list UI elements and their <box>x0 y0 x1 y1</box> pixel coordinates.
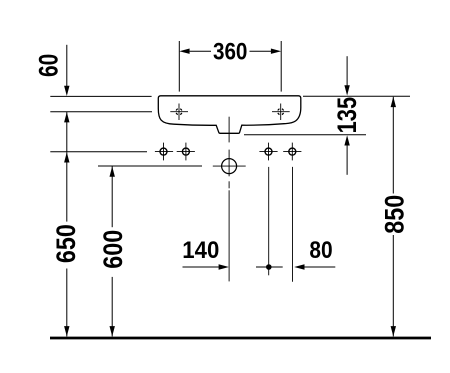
wire rim reference line right <box>303 95 410 97</box>
dimension 850 line <box>392 97 394 194</box>
svg-text:600: 600 <box>98 230 128 269</box>
dimension 360 extension right <box>280 41 282 92</box>
fixing hole C3 <box>259 143 277 161</box>
basin outline <box>158 96 300 134</box>
dimension 80 line <box>304 266 335 268</box>
fixing hole C4 <box>283 143 301 161</box>
fixing hole C1 <box>155 143 173 161</box>
floor line <box>50 337 431 340</box>
arrowhead 600 down <box>110 326 115 336</box>
dimension 650 line <box>66 152 68 221</box>
svg-text:850: 850 <box>379 195 409 234</box>
wire through dot <box>256 266 283 268</box>
arrowhead 60 down <box>64 86 69 96</box>
wire 60 level line left <box>50 111 152 113</box>
dimension 140 line <box>183 266 219 268</box>
fixing hole C2 <box>177 143 195 161</box>
wire 135 level line <box>244 134 366 136</box>
extension below fixing hole C3 <box>268 167 270 275</box>
wire 600 level line <box>98 165 202 167</box>
svg-text:80: 80 <box>309 237 332 264</box>
water supply circle <box>222 159 237 174</box>
arrowhead 140 right <box>219 264 229 269</box>
mounting crosshair right <box>272 104 290 121</box>
dimension 360 line <box>190 50 211 52</box>
arrowhead 360 left <box>179 49 189 54</box>
centerline of drain <box>228 117 230 143</box>
arrowhead 135 up <box>344 135 349 145</box>
dimension 360 extension left <box>178 41 180 92</box>
dimension 135 line <box>346 56 348 86</box>
svg-text:60: 60 <box>33 54 63 77</box>
arrowhead 60 up <box>64 112 69 122</box>
arrowhead 850 down <box>391 326 396 336</box>
svg-text:650: 650 <box>51 224 81 263</box>
wire 650 level line <box>50 151 147 153</box>
svg-text:135: 135 <box>332 97 362 134</box>
junction dot <box>266 264 272 270</box>
extension below fixing hole C4 <box>292 167 294 282</box>
svg-text:360: 360 <box>213 39 248 66</box>
arrowhead 650 down <box>64 326 69 336</box>
wire rim reference line left <box>50 95 151 97</box>
arrowhead 850 up <box>391 97 396 107</box>
arrowhead 360 right <box>271 49 281 54</box>
arrowhead 600 up <box>110 166 115 176</box>
mounting crosshair left <box>170 104 188 121</box>
dimension 600 line <box>111 166 113 227</box>
arrowhead 80 left <box>294 264 304 269</box>
arrowhead 650 up <box>64 152 69 162</box>
arrowhead 135 down <box>344 85 349 95</box>
dimension 60 line <box>66 45 68 86</box>
svg-text:140: 140 <box>182 237 219 264</box>
